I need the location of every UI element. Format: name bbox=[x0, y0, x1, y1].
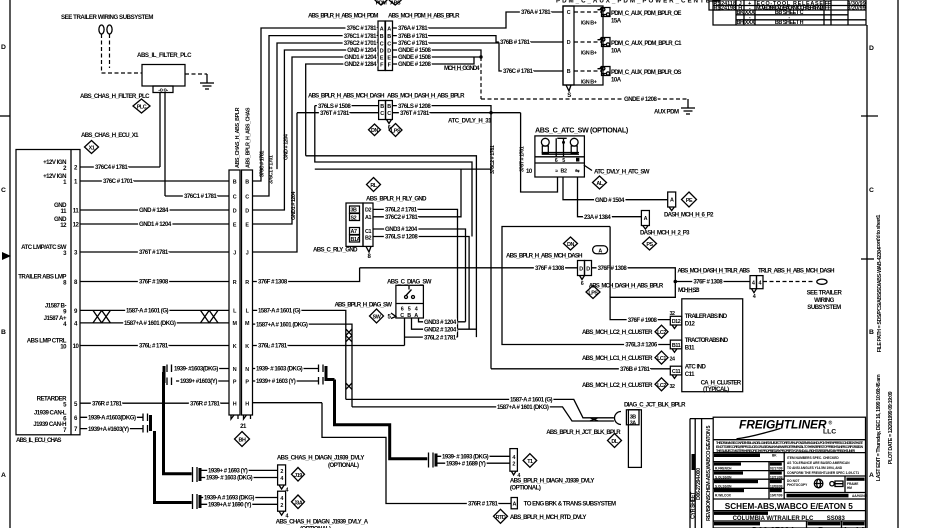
svg-text:C: C bbox=[400, 313, 404, 319]
svg-text:AS TOLERANCE ARE BASED AMERICA: AS TOLERANCE ARE BASED AMERICAN bbox=[787, 461, 850, 465]
svg-text:D2: D2 bbox=[365, 208, 371, 214]
title block disclaimer lines bbox=[716, 441, 864, 453]
svg-text:ABS_BPLR_H_ABS_MCH_PDM: ABS_BPLR_H_ABS_MCH_PDM bbox=[308, 13, 378, 20]
svg-text:376F # 1308: 376F # 1308 bbox=[258, 279, 288, 286]
svg-text:376C # 1781: 376C # 1781 bbox=[347, 25, 378, 32]
svg-text:B: B bbox=[380, 104, 384, 110]
wire 1939+A #1603(Y) ECU pin7 to splice bbox=[80, 426, 143, 433]
border right inner frame line bbox=[861, 25, 878, 528]
svg-text:1939- #1603(DKG): 1939- #1603(DKG) bbox=[174, 366, 218, 373]
connector dash BC pin letters bbox=[380, 104, 391, 117]
node PE diamond bbox=[682, 192, 697, 207]
svg-text:B: B bbox=[407, 313, 411, 319]
svg-text:376F # 1908: 376F # 1908 bbox=[139, 279, 169, 286]
splice 1939 to J19 bbox=[193, 467, 201, 482]
svg-text:376A # 1781: 376A # 1781 bbox=[398, 25, 428, 32]
svg-text:BK: BK bbox=[737, 10, 744, 16]
wire 376C1 # 1781 filter to connector C bbox=[165, 193, 229, 200]
svg-text:C: C bbox=[380, 41, 384, 47]
svg-text:LPS: LPS bbox=[588, 291, 598, 297]
svg-text:THE SUBJECT MATTER HEREOF IS T: THE SUBJECT MATTER HEREOF IS THE PROPRIE… bbox=[716, 449, 856, 453]
node T1 diamond bbox=[523, 454, 537, 468]
svg-text:B: B bbox=[380, 34, 384, 40]
svg-text:J19: J19 bbox=[294, 473, 302, 479]
svg-text:4: 4 bbox=[280, 496, 283, 502]
ground aux filter bbox=[200, 74, 214, 89]
wire 376T # 1781 ECU pin3 to connector J bbox=[80, 249, 229, 256]
wire 1939-A # 1693 (DKG) to J3A pin 4 bbox=[200, 495, 278, 502]
wire 376C riser connector B to PDM A bbox=[253, 28, 379, 181]
svg-text:J: J bbox=[246, 250, 249, 256]
svg-text:10/07/99: 10/07/99 bbox=[770, 494, 783, 498]
svg-text:PE: PE bbox=[686, 198, 693, 204]
wire 1939- # 1603 (DKG) to J19 pin 4 bbox=[200, 475, 278, 482]
ground AUX PDM bbox=[654, 99, 695, 116]
wire labels PDM left side bbox=[344, 25, 377, 68]
node J19 diamond bbox=[292, 468, 305, 482]
svg-text:DASH_MCH_H_2_P3: DASH_MCH_H_2_P3 bbox=[640, 230, 690, 237]
svg-text:(TYPICAL): (TYPICAL) bbox=[703, 386, 729, 393]
wire 376L2 # 1781 relay D2 bbox=[373, 207, 458, 338]
svg-text:®: ® bbox=[829, 420, 833, 427]
svg-text:TRAILER ABS LMP: TRAILER ABS LMP bbox=[18, 274, 66, 281]
wire 376L # 1781 ECU pin10 to connector K bbox=[80, 343, 229, 350]
node PS diamond bbox=[643, 237, 657, 250]
svg-text:N: N bbox=[233, 367, 237, 373]
svg-text:B11: B11 bbox=[672, 343, 681, 349]
svg-text:32: 32 bbox=[669, 384, 675, 390]
svg-text:J: J bbox=[233, 250, 236, 256]
svg-text:1939+A #1603(Y): 1939+A #1603(Y) bbox=[88, 426, 129, 433]
svg-text:376B # 1781: 376B # 1781 bbox=[398, 33, 429, 40]
wire GND3 # 1204 diag switch row bbox=[419, 318, 466, 326]
trailer subsystem oval bbox=[807, 279, 843, 311]
svg-text:376T # 1781: 376T # 1781 bbox=[320, 110, 350, 117]
wire 1939 pair left of connector N P bbox=[174, 366, 229, 386]
svg-text:B: B bbox=[387, 34, 391, 40]
svg-text:LC1: LC1 bbox=[657, 356, 666, 362]
wire thick 1939 harness left branch bbox=[164, 372, 192, 474]
connector pin C11 bbox=[669, 366, 681, 390]
svg-text:PLC: PLC bbox=[137, 105, 147, 111]
title block globe icon bbox=[814, 479, 823, 488]
node BH diamond bbox=[235, 432, 250, 447]
svg-text:LC2: LC2 bbox=[657, 330, 666, 336]
svg-text:K: K bbox=[245, 344, 249, 350]
svg-text:GND2 # 1284: GND2 # 1284 bbox=[344, 61, 377, 68]
svg-text:ABS_MCH_PDM_H_ABS_BPLR: ABS_MCH_PDM_H_ABS_BPLR bbox=[388, 13, 460, 20]
svg-text:ABS_MCH_LC2_H_CLUSTER: ABS_MCH_LC2_H_CLUSTER bbox=[582, 329, 653, 336]
title block third angle icon bbox=[830, 481, 843, 487]
svg-text:D12: D12 bbox=[685, 320, 696, 327]
svg-text:ABS_MCH_LC2_H_CLUSTER: ABS_MCH_LC2_H_CLUSTER bbox=[582, 382, 653, 389]
connector PDM fuse pin letters bbox=[567, 10, 571, 75]
svg-text:A: A bbox=[387, 26, 391, 32]
node DN diamond mid bbox=[564, 237, 578, 250]
svg-text:ABS_CHAS_H_FILTER_PLC: ABS_CHAS_H_FILTER_PLC bbox=[80, 93, 150, 100]
svg-text:TO ENG BRK & TRANS SUBSYSTEM: TO ENG BRK & TRANS SUBSYSTEM bbox=[524, 501, 616, 508]
svg-text:GND # 1204: GND # 1204 bbox=[347, 47, 377, 54]
wire 376A # 1781 PDM A to fuse C bbox=[393, 9, 564, 32]
svg-text:4: 4 bbox=[415, 307, 418, 313]
svg-text:ABS_C_RLY_GND: ABS_C_RLY_GND bbox=[313, 247, 358, 254]
svg-text:6: 6 bbox=[401, 307, 404, 313]
switch ABS_C_DIAG_SW bbox=[387, 279, 432, 320]
svg-text:1939+A # 1690 (Y): 1939+A # 1690 (Y) bbox=[208, 502, 251, 509]
wire 376C2 branch horizontal bbox=[315, 113, 496, 369]
svg-text:C: C bbox=[245, 194, 249, 200]
wire filter leg to ECU pin 2 bbox=[159, 93, 161, 168]
svg-text:COLUMBIA W/TRAILER PLC: COLUMBIA W/TRAILER PLC bbox=[733, 516, 814, 522]
wire 1939-A #1603(DKG) ECU pin6 to splice bbox=[80, 415, 143, 422]
wire GNDE # 1208 PDM F bbox=[393, 57, 475, 68]
svg-text:PDM: PDM bbox=[376, 0, 388, 6]
svg-text:2: 2 bbox=[280, 503, 283, 509]
svg-text:K: K bbox=[233, 344, 237, 350]
svg-text:376L3 # 1206: 376L3 # 1206 bbox=[625, 342, 658, 349]
ECU pin numbers in strip bbox=[73, 165, 80, 434]
wire 1939- # 1603 (DKG) connector N to splice bbox=[253, 366, 319, 373]
svg-text:GND3 # 1204: GND3 # 1204 bbox=[385, 226, 418, 233]
svg-text:4: 4 bbox=[512, 455, 515, 461]
svg-text:TRLR_ABS_H_ABS_MCH_DASH: TRLR_ABS_H_ABS_MCH_DASH bbox=[758, 267, 834, 274]
wire thick 1939 harness to J3A bbox=[155, 431, 192, 503]
svg-text:SCHEM-ABS,WABCO E/EATON 5: SCHEM-ABS,WABCO E/EATON 5 bbox=[706, 426, 712, 499]
svg-text:A: A bbox=[598, 248, 602, 254]
svg-text:5: 5 bbox=[562, 158, 565, 164]
svg-text:376F # 1308: 376F # 1308 bbox=[598, 265, 628, 272]
svg-text:ABS_BPLR_H_DIAGN_J1939_DVLY: ABS_BPLR_H_DIAGN_J1939_DVLY bbox=[510, 478, 594, 485]
svg-text:1939+ #1603(Y): 1939+ #1603(Y) bbox=[180, 378, 217, 385]
svg-text:J1939 CAN-H: J1939 CAN-H bbox=[33, 421, 66, 428]
svg-text:BK: BK bbox=[772, 454, 777, 458]
svg-text:ABS_MCH_DASH_H_TRLR_ABS: ABS_MCH_DASH_H_TRLR_ABS bbox=[677, 267, 749, 274]
svg-text:4: 4 bbox=[752, 281, 755, 287]
svg-text:376LS # 1508: 376LS # 1508 bbox=[318, 103, 351, 110]
title block fields left bbox=[714, 453, 783, 497]
svg-text:(OPTIONAL): (OPTIONAL) bbox=[510, 485, 541, 492]
svg-text:376LS # 1208: 376LS # 1208 bbox=[398, 103, 431, 110]
svg-text:D: D bbox=[586, 266, 590, 272]
logo FREIGHTLINER LLC bbox=[737, 418, 837, 439]
node LPS diamond lower bbox=[586, 286, 600, 299]
svg-text:LPS: LPS bbox=[391, 128, 401, 134]
svg-text:1587+A # 1601 (DKG): 1587+A # 1601 (DKG) bbox=[124, 320, 176, 327]
wire GND1 # 1204 ECU pin12 to connector E bbox=[80, 221, 229, 228]
svg-text:ABS_BPLR_H_ABS_MCH_DASH: ABS_BPLR_H_ABS_MCH_DASH bbox=[308, 93, 384, 100]
svg-text:H: H bbox=[245, 402, 249, 408]
svg-text:TRACTOR ABS IND: TRACTOR ABS IND bbox=[685, 337, 729, 344]
svg-text:LC2: LC2 bbox=[657, 383, 666, 389]
connector inline pin letters bbox=[232, 179, 250, 407]
svg-text:376C2 # 1781: 376C2 # 1781 bbox=[490, 145, 496, 174]
wire 1587 pair connector L M risers with twists bbox=[253, 308, 353, 407]
wire 376F # 1308 dash D to junction bbox=[592, 265, 678, 324]
node ABS diamond top bbox=[389, 0, 402, 6]
svg-text:D: D bbox=[233, 208, 237, 214]
svg-text:B: B bbox=[387, 104, 391, 110]
svg-text:376F # 1908: 376F # 1908 bbox=[628, 317, 658, 324]
connector A DASH_MCH_H_6_P2 bbox=[664, 192, 714, 219]
svg-text:A: A bbox=[414, 313, 418, 319]
splice left 1939 pair bbox=[164, 365, 172, 386]
wire 376C # 1781 PDM C to fuse B bbox=[393, 40, 564, 75]
wire 376F # 1908 ECU pin8 to connector R bbox=[80, 279, 229, 286]
connector pin B11 bbox=[669, 340, 681, 362]
svg-text:cont'd to sheet1: cont'd to sheet1 bbox=[876, 215, 882, 249]
svg-text:376T # 1701: 376T # 1701 bbox=[520, 146, 526, 172]
svg-text:(OPTIONAL): (OPTIONAL) bbox=[328, 462, 359, 469]
svg-text:ATC LMP/ATC SW: ATC LMP/ATC SW bbox=[21, 244, 67, 251]
wire 376LS # 1208 relay B2 bbox=[373, 234, 469, 330]
svg-text:B11: B11 bbox=[685, 345, 695, 352]
svg-text:D12: D12 bbox=[672, 319, 681, 325]
svg-text:ITEM NUMBERS SPEC. CHECKED: ITEM NUMBERS SPEC. CHECKED bbox=[787, 456, 839, 460]
wire dashed to trailer subsystem bbox=[763, 281, 814, 283]
svg-text:LAST EDIT = Thursday, DEC 16,: LAST EDIT = Thursday, DEC 16, 1999 10:08… bbox=[876, 374, 882, 481]
border left frame line bbox=[0, 0, 11, 528]
wire GND3 # 1204 relay C1 bbox=[373, 226, 466, 322]
ECU pin labels bbox=[18, 159, 67, 434]
svg-text:C: C bbox=[387, 41, 391, 47]
svg-text:X1: X1 bbox=[89, 146, 95, 152]
wire 376F connector R riser to dash D wire bbox=[253, 268, 360, 282]
svg-text:C: C bbox=[380, 111, 384, 117]
svg-text:HM: HM bbox=[847, 486, 852, 490]
revision table top right bbox=[713, 0, 866, 26]
svg-text:DASH_MCH_H_6_P2: DASH_MCH_H_6_P2 bbox=[664, 212, 714, 219]
ECU ABS_IL_ECU_CHAS box bbox=[16, 132, 139, 444]
svg-text:J1939 CAN-L: J1939 CAN-L bbox=[34, 410, 67, 417]
svg-text:4: 4 bbox=[753, 294, 756, 300]
fuse PDM_C_AUX_PDM_BPLR_OE 15A bbox=[574, 8, 681, 27]
svg-text:8/20/99: 8/20/99 bbox=[847, 6, 865, 12]
wire GND riser connector D to PDM D bbox=[253, 50, 379, 210]
svg-text:FREIGHTLINER: FREIGHTLINER bbox=[739, 418, 827, 432]
svg-text:1939+ # 1689 (Y): 1939+ # 1689 (Y) bbox=[446, 460, 486, 467]
title block main box bbox=[713, 417, 865, 528]
splice 1939 to T1 bbox=[429, 453, 437, 468]
connector ABS_CHAS_H_DIAGN_J1939_DVLY bbox=[277, 455, 364, 494]
svg-text:C: C bbox=[1, 187, 6, 194]
connector PDM bulkhead body bbox=[378, 21, 393, 71]
svg-text:AUX PDM: AUX PDM bbox=[654, 109, 679, 116]
svg-text:A1: A1 bbox=[365, 215, 371, 221]
node LPS diamond upper bbox=[389, 124, 402, 137]
connector PDM pin letters bbox=[380, 26, 392, 68]
svg-text:A: A bbox=[670, 198, 674, 204]
wire 376C2 riser PDM C down bbox=[277, 43, 378, 169]
svg-text:PDM_C_AUX_PDM_POWER_CENTER: PDM_C_AUX_PDM_POWER_CENTER bbox=[556, 0, 717, 4]
svg-text:B: B bbox=[233, 179, 237, 185]
wire 376R # 1781 ECU pin5 to connector H bbox=[80, 400, 229, 407]
svg-text:1939-A #1603(DKG): 1939-A #1603(DKG) bbox=[88, 415, 136, 422]
splice ECU J1939 pair bbox=[143, 414, 151, 433]
svg-text:SEE TRAILER: SEE TRAILER bbox=[807, 290, 843, 297]
splice 1939 to J3A bbox=[193, 494, 201, 509]
svg-text:R: R bbox=[245, 280, 249, 286]
svg-text:SCHEM-ABS,WABCO E/EATON 5: SCHEM-ABS,WABCO E/EATON 5 bbox=[725, 502, 853, 511]
svg-text:2: 2 bbox=[512, 462, 515, 468]
filter ABS_IL_FILTER_PLC bbox=[137, 52, 192, 94]
svg-text:376T # 1781: 376T # 1781 bbox=[400, 110, 430, 117]
svg-text:S.OLSSON: S.OLSSON bbox=[715, 485, 732, 489]
wire 376T # 1701 riser to ATC switch bbox=[520, 113, 558, 192]
svg-text:3A: 3A bbox=[630, 420, 637, 426]
wire GND # 1504 ATC switch to dash pin A bbox=[563, 177, 668, 204]
splice right 1939 pair bbox=[319, 365, 335, 385]
wire 376LS # 1508 left of dash B bbox=[315, 103, 379, 110]
wire 1939+ # 1693 (Y) to J19 pin 2 bbox=[200, 468, 278, 475]
svg-text:ABS_MCH_DASH_H_ABS_BPLR: ABS_MCH_DASH_H_ABS_BPLR bbox=[589, 283, 664, 290]
svg-text:376C1 # 1781: 376C1 # 1781 bbox=[344, 33, 377, 40]
svg-text:ABS_CHAS_H_ABS_BPLR: ABS_CHAS_H_ABS_BPLR bbox=[235, 107, 241, 168]
svg-text:IGN B+: IGN B+ bbox=[581, 80, 597, 86]
node LC2 diamond lower bbox=[582, 378, 668, 391]
svg-text:376L2 # 1781: 376L2 # 1781 bbox=[385, 207, 418, 214]
title block left rotated strips bbox=[690, 419, 713, 528]
svg-text:J3A: J3A bbox=[294, 500, 303, 506]
svg-text:D: D bbox=[869, 45, 874, 52]
svg-text:1939+ # 1693 (Y): 1939+ # 1693 (Y) bbox=[208, 468, 248, 475]
svg-text:376C4 # 1781: 376C4 # 1781 bbox=[95, 164, 128, 171]
svg-text:S2: S2 bbox=[351, 216, 357, 222]
svg-text:376A # 1781: 376A # 1781 bbox=[521, 9, 551, 16]
wire 23A # 1384 ATC switch to dash pin A bbox=[578, 177, 642, 221]
svg-text:A7: A7 bbox=[351, 229, 357, 235]
trailer stub terminals bbox=[99, 25, 112, 34]
svg-text:PDM_C_AUX_PDM_BPLR_C1: PDM_C_AUX_PDM_BPLR_C1 bbox=[611, 40, 682, 47]
connector dash bulkhead BC body bbox=[379, 101, 393, 132]
fuse PDM_C_AUX_PDM_BPLR_OS 10A bbox=[574, 67, 681, 86]
svg-text:D: D bbox=[579, 266, 583, 272]
node RTD diamond bbox=[494, 509, 587, 523]
svg-text:B: B bbox=[245, 179, 249, 185]
svg-text:12/08/99: 12/08/99 bbox=[770, 485, 783, 489]
svg-text:D: D bbox=[567, 40, 571, 46]
svg-text:376C # 1781: 376C # 1781 bbox=[260, 151, 266, 177]
svg-text:FILE PATH = SDS/PCS/ABS/SD/ABS: FILE PATH = SDS/PCS/ABS/SD/ABS-WAB-42304 bbox=[877, 247, 883, 352]
svg-text:376F # 1308: 376F # 1308 bbox=[535, 265, 565, 272]
svg-text:ATC_DVLY_H_31: ATC_DVLY_H_31 bbox=[448, 118, 492, 125]
wire 1939+ # 1689 (Y) to T1 pin 2 bbox=[436, 460, 510, 467]
wire thick 1939 harness right branch bbox=[335, 380, 428, 459]
svg-text:TO ANSI ANGLES Y14.5M 1994, AN: TO ANSI ANGLES Y14.5M 1994, AND bbox=[787, 466, 843, 470]
svg-text:IGN B+: IGN B+ bbox=[581, 21, 597, 27]
svg-text:ABS: ABS bbox=[390, 0, 401, 6]
svg-text:S: S bbox=[567, 92, 571, 99]
svg-text:1587-A # 1601 (G): 1587-A # 1601 (G) bbox=[258, 308, 301, 315]
svg-text:B2: B2 bbox=[365, 236, 371, 242]
wire 376C1 riser connector C to PDM B bbox=[253, 36, 379, 196]
wire dashed filter to ground bbox=[185, 73, 207, 75]
node SW diamond bbox=[335, 302, 396, 324]
connector TRLR_ABS 4 4 bbox=[677, 267, 834, 300]
svg-text:376R # 1781: 376R # 1781 bbox=[92, 400, 123, 407]
svg-text:ABS_BPLR_H_DIAG_SW: ABS_BPLR_H_DIAG_SW bbox=[335, 302, 393, 309]
wire GNDE # 1508 PDM E bbox=[393, 54, 482, 61]
svg-text:GND3 # 1204: GND3 # 1204 bbox=[424, 319, 457, 326]
svg-text:C: C bbox=[233, 194, 237, 200]
svg-text:C11: C11 bbox=[672, 369, 681, 375]
node RL diamond bbox=[367, 178, 381, 192]
wire 1587 pair lower run to junction block bbox=[346, 397, 614, 421]
svg-text:376L # 1781: 376L # 1781 bbox=[258, 343, 288, 350]
wire GND2 bus mid horizontal bbox=[306, 156, 477, 337]
node A oval mid bbox=[593, 246, 608, 255]
svg-text:B2: B2 bbox=[561, 169, 567, 175]
svg-text:12/21/99: 12/21/99 bbox=[770, 476, 783, 480]
svg-text:C: C bbox=[869, 187, 874, 194]
svg-text:DN: DN bbox=[371, 128, 378, 134]
svg-text:ATC IND: ATC IND bbox=[685, 364, 707, 371]
svg-text:GND # 1504: GND # 1504 bbox=[595, 197, 625, 204]
connector A DASH_MCH_H_2_P3 bbox=[640, 211, 690, 237]
svg-text:CYR SHEET: CYR SHEET bbox=[690, 491, 696, 519]
svg-text:ABS_CHAS_H_DIAGN_J1939_DVLY: ABS_CHAS_H_DIAGN_J1939_DVLY bbox=[277, 455, 364, 462]
svg-text:376C1 # 1701: 376C1 # 1701 bbox=[269, 155, 275, 184]
svg-text:BH: BH bbox=[239, 437, 246, 443]
svg-text:B: B bbox=[567, 69, 571, 75]
wire 1587-A # 1601 ECU pin9 to connector L with twists bbox=[80, 308, 229, 328]
svg-text:CONFORM THE FREIGHTLINER SPEC: CONFORM THE FREIGHTLINER SPEC 1-09-CT1 bbox=[787, 471, 859, 475]
wire 376L2 # 1781 diag switch row bbox=[405, 318, 458, 346]
svg-text:2: 2 bbox=[280, 469, 283, 475]
svg-text:IGN B+: IGN B+ bbox=[581, 51, 597, 57]
svg-text:H: H bbox=[233, 402, 237, 408]
svg-text:A: A bbox=[380, 26, 384, 32]
wire 376T connector J riser to dash connector C bbox=[253, 113, 298, 252]
wire GNDE # 1508 PDM D bbox=[393, 47, 482, 57]
connector small top right bbox=[709, 1, 720, 10]
svg-text:SEE TRAILER WIRING SUBSYSTEM: SEE TRAILER WIRING SUBSYSTEM bbox=[61, 14, 153, 21]
svg-text:GNDE # 1208: GNDE # 1208 bbox=[624, 96, 658, 103]
svg-text:3B: 3B bbox=[351, 208, 358, 214]
svg-text:R: R bbox=[233, 280, 237, 286]
connector ABS_BPLR/ABS_CHAS inline body bbox=[229, 170, 253, 430]
svg-text:ABS_BPLR_H_ABS_MCH_DASH: ABS_BPLR_H_ABS_MCH_DASH bbox=[506, 253, 582, 260]
svg-text:T1: T1 bbox=[527, 459, 533, 465]
svg-text:WIRING: WIRING bbox=[814, 297, 834, 304]
svg-text:SS083: SS083 bbox=[827, 516, 846, 522]
svg-text:C: C bbox=[567, 10, 571, 16]
svg-text:RS24198: RS24198 bbox=[714, 6, 736, 12]
connector ABS_CHAS_H_DIAGN_J1939_DVLY_A bbox=[276, 491, 369, 528]
svg-text:DIAG_C_JCT_BLK_BPLR: DIAG_C_JCT_BLK_BPLR bbox=[624, 402, 686, 409]
svg-text:376C2 # 1701: 376C2 # 1701 bbox=[344, 40, 377, 47]
svg-text:XXX: XXX bbox=[745, 20, 755, 26]
svg-text:376C # 1781: 376C # 1781 bbox=[398, 40, 429, 47]
svg-text:D: D bbox=[245, 208, 249, 214]
wire 376T # 1781 right of dash C to ATC riser bbox=[392, 110, 520, 125]
svg-text:ATC_DVLY_H_ATC_SW: ATC_DVLY_H_ATC_SW bbox=[594, 169, 650, 176]
node PDM diamond top bbox=[375, 0, 388, 6]
svg-text:376C # 1781: 376C # 1781 bbox=[503, 68, 534, 75]
svg-text:BH: BH bbox=[737, 20, 744, 26]
wire GND2 # 1204 diag switch row bbox=[412, 318, 477, 333]
svg-text:10A: 10A bbox=[611, 77, 622, 84]
svg-text:GND1 # 1204: GND1 # 1204 bbox=[291, 192, 297, 220]
svg-text:1939- # 1603 (DKG): 1939- # 1603 (DKG) bbox=[206, 475, 253, 482]
svg-text:ABS_BPLR_H_RLY_GND: ABS_BPLR_H_RLY_GND bbox=[366, 196, 427, 203]
wire 376C2 # 1781 relay A1 bbox=[373, 169, 461, 221]
wire 376B # 1781 PDM B to fuse D bbox=[393, 33, 564, 46]
relay ABS_C_RLY_GND bbox=[313, 196, 427, 260]
wire 376B # 1781 to cluster C11 bbox=[491, 366, 670, 373]
svg-text:DN: DN bbox=[567, 242, 574, 248]
node LC2 diamond bbox=[582, 325, 668, 338]
border right outer frame line bbox=[897, 0, 899, 528]
